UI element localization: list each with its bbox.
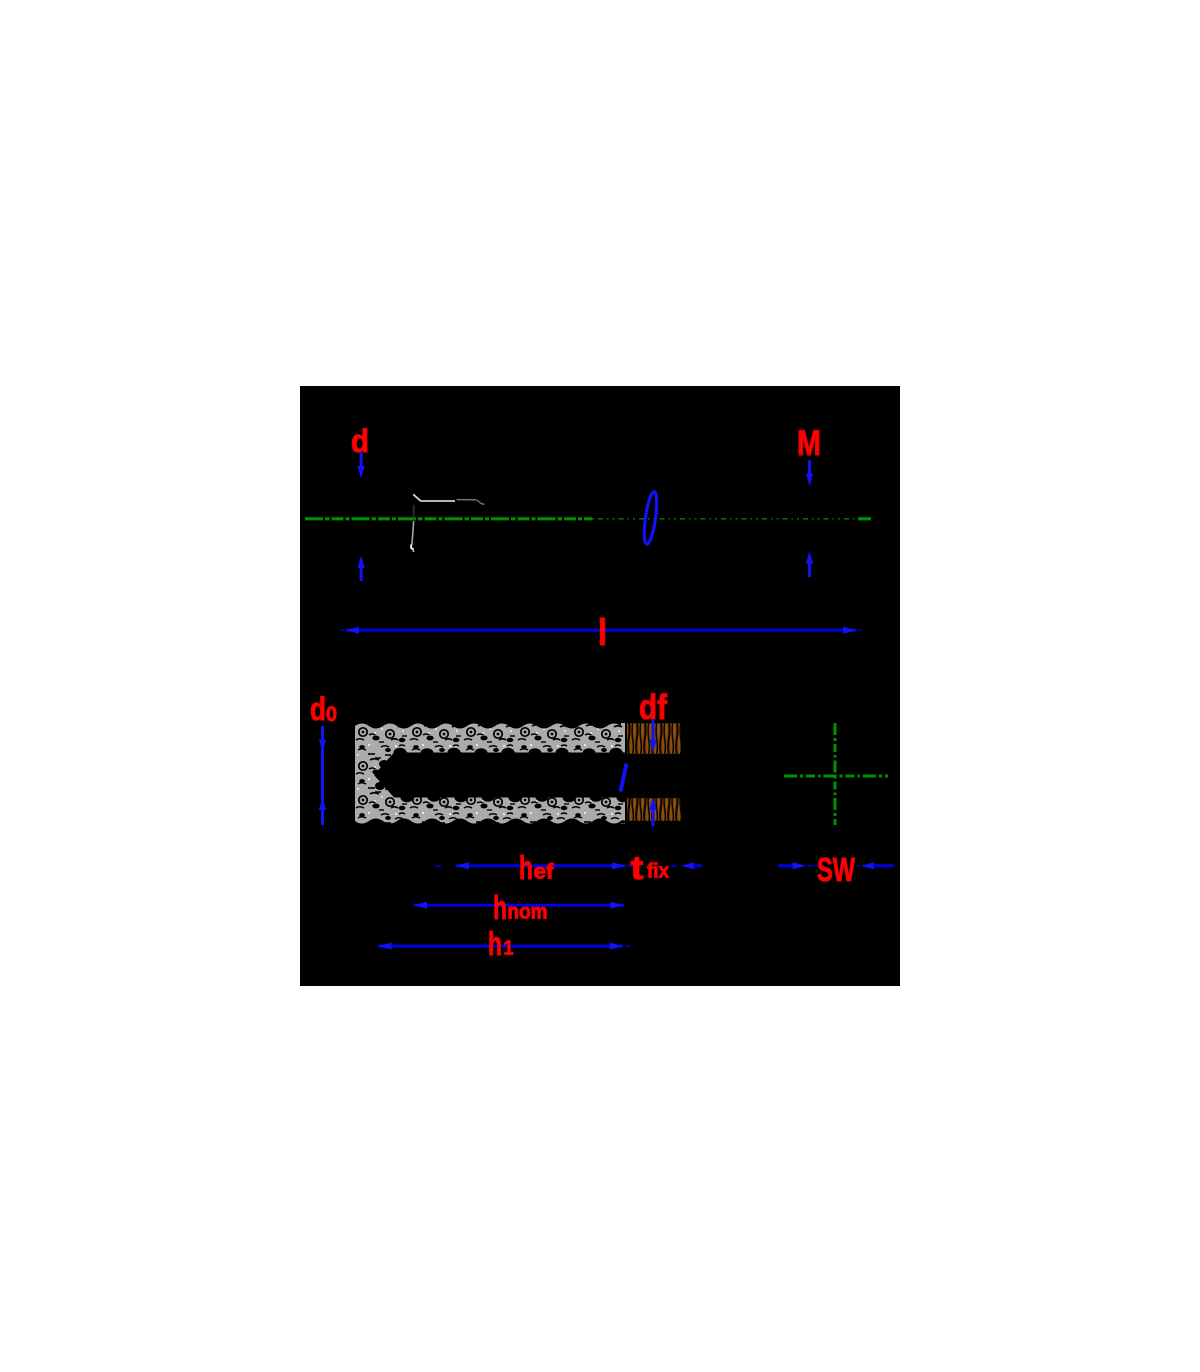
centerline (green dash-dot) bold left part [305, 517, 592, 520]
hef dimension [435, 862, 634, 869]
wood fixture top band [627, 721, 681, 756]
hole wall scallops (top) [375, 748, 630, 803]
svg-text:nom: nom [508, 901, 548, 924]
svg-text:h: h [519, 849, 533, 886]
concrete block [355, 723, 625, 824]
svg-text:fix: fix [647, 861, 669, 883]
h1 dimension [378, 943, 631, 950]
hnom dimension [414, 902, 625, 909]
svg-text:h: h [488, 925, 502, 962]
svg-text:d: d [310, 691, 326, 727]
ragged outer bottom edge [355, 819, 621, 827]
svg-text:SW: SW [817, 851, 856, 888]
df dimension arrows [649, 719, 657, 827]
drilled hole [374, 753, 625, 798]
thread ellipse [642, 491, 659, 545]
d0 dimension [319, 726, 326, 825]
d dimension arrows [357, 453, 364, 582]
svg-text:h: h [493, 889, 507, 926]
ragged outer top edge [355, 721, 621, 729]
wood fixture bottom band [627, 796, 681, 823]
svg-text:1: 1 [504, 938, 514, 960]
svg-text:0: 0 [326, 703, 337, 726]
thread tick (blue slanted) [621, 764, 627, 792]
svg-text:ef: ef [534, 861, 555, 884]
svg-text:t: t [631, 849, 644, 886]
t fix arrows [671, 862, 702, 869]
l dimension line [340, 627, 862, 634]
centerline end dash [858, 517, 871, 520]
svg-text:M: M [797, 424, 821, 463]
green cross centerlines [784, 775, 888, 778]
svg-text:l: l [598, 612, 607, 653]
M dimension arrows [806, 460, 813, 577]
centerline thin right part [592, 518, 858, 520]
black drawing panel [300, 386, 900, 986]
SW dimension [778, 862, 894, 869]
screw outline highlight fragments (light gray) [413, 494, 421, 501]
